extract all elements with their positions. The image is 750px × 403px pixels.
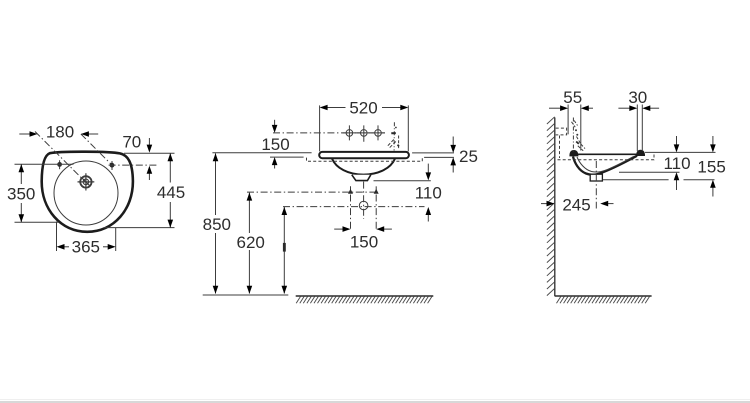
left fixing bolt marker (front) — [348, 186, 353, 229]
drain vertical centerline (dash-dot, side) — [595, 161, 597, 209]
taps centerline (dash-dot) — [273, 132, 385, 134]
dashed supply pipe on wall (side) — [559, 136, 561, 159]
trap circle (front) — [359, 201, 368, 210]
svg-text:350: 350 — [7, 185, 35, 204]
svg-text:150: 150 — [350, 233, 378, 252]
bowl inner curve (side view) — [577, 156, 634, 172]
drain box (side view) — [590, 174, 602, 181]
svg-text:245: 245 — [562, 195, 590, 214]
dimension 245 (side bottom) — [541, 195, 614, 214]
trap vertical centerline (dash-dot) — [363, 182, 365, 219]
dimension 70 (plan top-right) — [122, 133, 152, 180]
page footer gray band — [0, 401, 750, 403]
dimension 155 (side far right) — [697, 136, 725, 197]
svg-text:180: 180 — [46, 122, 74, 141]
dashed countertop cutout line (front) — [307, 158, 423, 162]
fixing bolts centerline (dash-dot, front) — [247, 191, 377, 193]
right fixing hole — [110, 161, 115, 170]
dimension 620 (floor to bolt line) — [237, 193, 265, 294]
mixer tap silhouette (dashed, front) — [387, 122, 399, 150]
dimension 180 (plan top) — [19, 122, 98, 141]
inner bowl circle (plan) — [54, 161, 118, 225]
svg-text:25: 25 — [459, 147, 478, 166]
svg-text:150: 150 — [261, 135, 289, 154]
centerline diagonal through faucet hole — [35, 132, 85, 182]
svg-text:55: 55 — [563, 88, 582, 107]
dimension 25 (front right, rim thickness) — [412, 137, 478, 173]
dimension 150 (front bottom, bolt spacing) — [334, 226, 392, 251]
trap centerline (dash-dot, front) — [283, 206, 425, 208]
tap hole symbol 3 — [371, 125, 385, 140]
dimension 55 (side top) — [549, 88, 593, 151]
rim (side view) — [570, 153, 642, 155]
drain (front view) — [352, 175, 371, 181]
svg-text:365: 365 — [72, 238, 100, 257]
bowl (front view) — [332, 159, 395, 175]
rim (front view, stadium bar) — [319, 152, 409, 158]
unlabeled dimension line (floor to trap line) — [282, 207, 288, 294]
dash-dot line through right fixing hole — [109, 164, 157, 166]
tap vertical centerline (dash-dot, side) — [572, 118, 574, 153]
svg-text:620: 620 — [237, 233, 265, 252]
floor line (side view) — [555, 295, 652, 297]
dimension 350 (plan left) — [7, 164, 73, 222]
bowl-bottom reference line (side) — [619, 171, 680, 173]
wall hatching — [547, 117, 555, 296]
svg-text:70: 70 — [122, 133, 141, 152]
drain-bottom reference line (side) — [603, 179, 715, 181]
floor hatching (side view) — [557, 297, 650, 304]
svg-text:110: 110 — [663, 154, 690, 173]
faucet hole symbol — [78, 173, 95, 190]
dimension 520 (front top) — [320, 99, 409, 152]
svg-text:30: 30 — [628, 88, 647, 107]
dimension 30 (side top) — [618, 88, 659, 151]
dimension 365 (plan bottom) — [57, 222, 116, 257]
right fixing bolt marker (front) — [374, 186, 379, 229]
tap hole symbol 2 — [357, 125, 371, 141]
dimension baseline at floor level — [203, 294, 289, 296]
tap hole symbol 1 — [343, 125, 357, 140]
svg-text:850: 850 — [203, 215, 231, 234]
page footer hairline — [0, 399, 750, 401]
wall line — [554, 118, 556, 297]
rim-top reference line (left of rim) — [212, 152, 311, 154]
dimension 445 (plan right) — [104, 153, 186, 227]
rim-top reference line extending right (side) — [645, 151, 716, 153]
front bolt lump (side view) — [570, 150, 578, 156]
svg-text:155: 155 — [697, 158, 725, 177]
dimension 850 (floor to rim) — [203, 153, 231, 294]
drain-bottom extension line (front) — [374, 180, 431, 182]
rim-bottom reference line (left of rim) — [270, 156, 304, 158]
svg-text:520: 520 — [349, 99, 377, 118]
basin outline (plan view) — [42, 152, 133, 232]
centerline diagonal through right fixing hole — [81, 134, 113, 166]
left fixing hole — [57, 160, 62, 169]
dimension 110 (side right) — [663, 136, 690, 190]
floor hatching (front view) — [296, 297, 432, 304]
floor line (front view) — [296, 295, 434, 297]
svg-text:445: 445 — [157, 183, 185, 202]
dashed supply box on wall (side) — [556, 128, 567, 135]
dimension 110 (front right) — [415, 164, 442, 222]
bowl outer curve (side view) — [573, 156, 637, 175]
dashed countertop line (side view) — [558, 154, 655, 160]
mixer tap silhouette (dashed, side) — [572, 121, 586, 151]
svg-text:110: 110 — [415, 184, 442, 203]
rear bolt lump (side view) — [637, 150, 645, 156]
dimension 150 (front left, taps to rim) — [261, 120, 289, 169]
